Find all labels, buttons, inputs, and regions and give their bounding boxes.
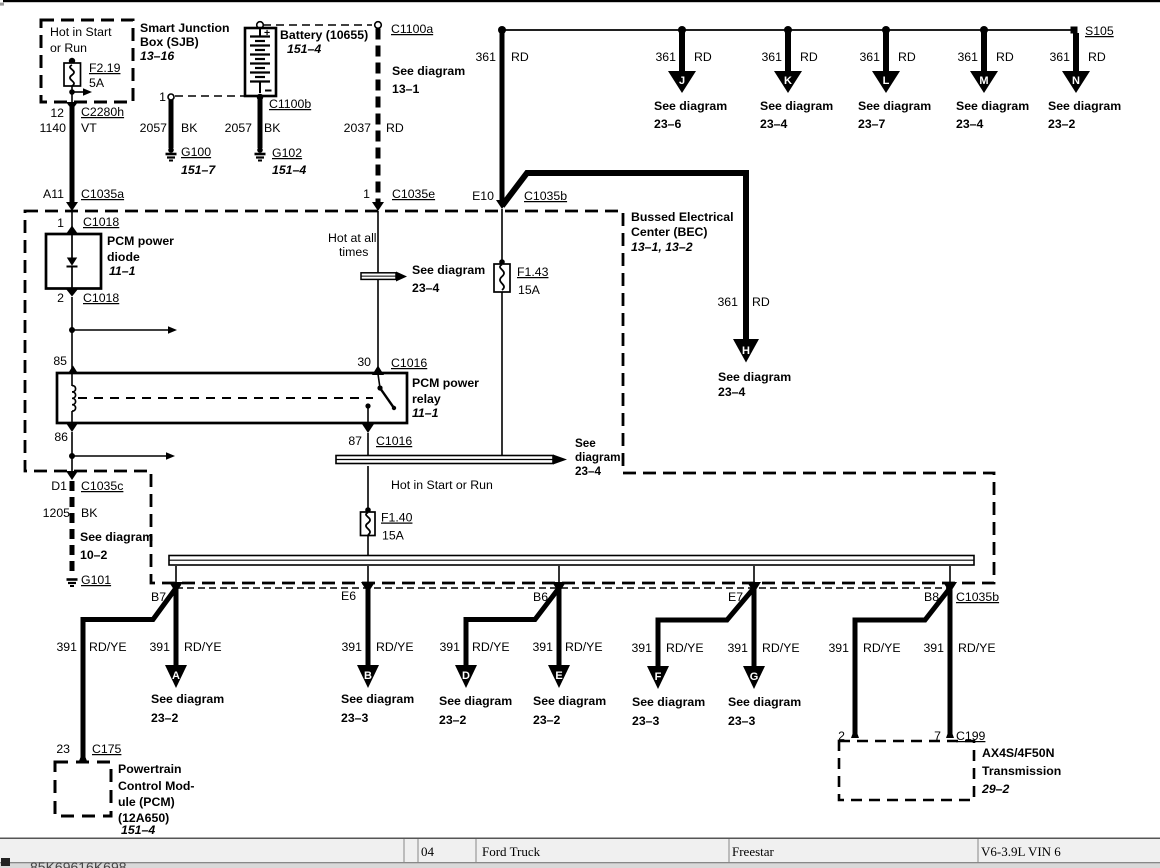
pin 86 [66, 423, 78, 432]
svg-text:See diagram: See diagram [341, 692, 414, 706]
pin 2 C1018 [66, 289, 78, 297]
PCM power diode box [46, 234, 101, 289]
svg-text:C1016: C1016 [376, 434, 412, 448]
svg-text:See: See [575, 437, 596, 450]
arrow M [956, 26, 1029, 131]
svg-text:361: 361 [761, 50, 782, 64]
svg-text:361: 361 [717, 295, 738, 309]
wire into diode [71, 211, 73, 236]
svg-text:23–7: 23–7 [858, 117, 886, 131]
svg-text:F1.43: F1.43 [517, 265, 549, 279]
wire 391 RD/YE B7 to arrow A [174, 586, 179, 668]
svg-text:RD: RD [752, 295, 770, 309]
svg-text:04: 04 [421, 844, 435, 859]
pin 30 C1016 wire [377, 211, 379, 367]
status bar [0, 838, 1160, 840]
relay coil [71, 373, 73, 386]
bus bar 3 [169, 556, 974, 566]
svg-text:C1035e: C1035e [392, 187, 435, 201]
arrow N [1048, 33, 1121, 131]
svg-text:M: M [979, 75, 988, 87]
wire down to relay [71, 297, 73, 373]
svg-text:12: 12 [50, 106, 64, 120]
svg-text:Transmission: Transmission [982, 764, 1061, 778]
svg-text:11–1: 11–1 [412, 406, 439, 420]
svg-text:23–4: 23–4 [760, 117, 788, 131]
arrow J [654, 26, 727, 131]
connector B6 [533, 566, 566, 604]
svg-text:times: times [339, 245, 368, 259]
svg-text:23–3: 23–3 [728, 714, 756, 728]
svg-text:C1016: C1016 [391, 356, 427, 370]
svg-text:391: 391 [439, 640, 460, 654]
arrow D [455, 665, 477, 688]
fuse F2.19 [69, 58, 75, 64]
connector D1 C1035c [66, 471, 78, 480]
svg-text:391: 391 [532, 640, 553, 654]
svg-text:diode: diode [107, 250, 140, 264]
svg-text:361: 361 [1049, 50, 1070, 64]
svg-text:diagram: diagram [575, 451, 620, 464]
ground G102 [257, 147, 263, 153]
svg-text:RD: RD [1088, 50, 1106, 64]
pin 87 C1016 [362, 424, 374, 433]
svg-text:PCM power: PCM power [412, 376, 479, 390]
svg-text:RD/YE: RD/YE [762, 641, 800, 655]
battery (10655) [257, 22, 264, 29]
wire 391 RD/YE E7 to arrow F [658, 588, 754, 669]
node with right arrow [69, 327, 75, 333]
wire 86 down [71, 432, 73, 471]
svg-text:23–4: 23–4 [412, 281, 440, 295]
svg-text:See diagram: See diagram [151, 692, 224, 706]
svg-text:2057: 2057 [140, 121, 168, 135]
fuse branch arrow [69, 89, 75, 95]
arrow G [743, 666, 765, 689]
svg-text:RD/YE: RD/YE [472, 640, 510, 654]
svg-text:H: H [742, 345, 750, 357]
fuse box Hot in Start or Run (dashed) [41, 20, 133, 102]
relay switch [378, 374, 380, 388]
svg-text:RD/YE: RD/YE [89, 640, 127, 654]
svg-text:C1035b: C1035b [956, 590, 999, 604]
svg-text:C1035c: C1035c [81, 479, 123, 493]
svg-text:86: 86 [54, 430, 68, 444]
svg-text:Battery (10655): Battery (10655) [280, 28, 368, 42]
svg-text:391: 391 [828, 641, 849, 655]
svg-text:See diagram: See diagram [439, 694, 512, 708]
svg-text:1: 1 [57, 216, 64, 230]
svg-text:G: G [750, 671, 759, 683]
ground G101 [67, 578, 78, 581]
wire (dashed link to battery) [175, 95, 256, 97]
arrow A [165, 665, 187, 688]
svg-text:23–2: 23–2 [1048, 117, 1076, 131]
PCM power relay box [57, 373, 407, 423]
svg-text:2057: 2057 [225, 121, 253, 135]
svg-text:1: 1 [159, 90, 166, 104]
svg-text:23: 23 [56, 742, 70, 756]
arrow K [760, 26, 833, 131]
svg-text:RD/YE: RD/YE [565, 640, 603, 654]
svg-text:85K69616K698: 85K69616K698 [30, 859, 127, 868]
svg-text:F1.40: F1.40 [381, 511, 413, 525]
svg-text:VT: VT [81, 121, 97, 135]
svg-text:Ford Truck: Ford Truck [482, 844, 541, 859]
svg-text:Hot at all: Hot at all [328, 231, 377, 245]
svg-text:RD/YE: RD/YE [863, 641, 901, 655]
dashed enclosure (SJB/BEC boundary polygon) [25, 211, 994, 583]
svg-text:13–16: 13–16 [140, 49, 174, 63]
svg-text:RD/YE: RD/YE [958, 641, 996, 655]
svg-text:Hot in Start: Hot in Start [50, 25, 112, 39]
svg-text:361: 361 [957, 50, 978, 64]
svg-text:V6-3.9L VIN 6: V6-3.9L VIN 6 [981, 844, 1061, 859]
svg-text:13–1: 13–1 [392, 82, 420, 96]
svg-text:Control Mod-: Control Mod- [118, 779, 195, 793]
svg-text:23–6: 23–6 [654, 117, 682, 131]
svg-text:See diagram: See diagram [1048, 99, 1121, 113]
wire 2037 RD (thick dashed) [376, 29, 381, 203]
svg-text:Bussed Electrical: Bussed Electrical [631, 210, 734, 224]
svg-text:F2.19: F2.19 [89, 61, 121, 75]
svg-text:391: 391 [341, 640, 362, 654]
fuse F1.43 [501, 209, 503, 264]
svg-text:RD: RD [511, 50, 529, 64]
svg-text:See diagram: See diagram [632, 695, 705, 709]
svg-text:Hot in Start or Run: Hot in Start or Run [391, 478, 493, 492]
svg-text:391: 391 [631, 641, 652, 655]
connector row dashed line [176, 587, 950, 589]
svg-text:RD/YE: RD/YE [376, 640, 414, 654]
arrow H [733, 339, 759, 363]
svg-text:15A: 15A [518, 283, 541, 297]
PCM box (dashed) [55, 762, 111, 816]
svg-text:5A: 5A [89, 76, 105, 90]
svg-text:C1100b: C1100b [269, 97, 311, 111]
svg-text:See diagram: See diagram [412, 263, 485, 277]
arrow B [357, 665, 379, 688]
svg-text:85: 85 [53, 354, 67, 368]
svg-text:ule (PCM): ule (PCM) [118, 795, 175, 809]
svg-text:151–4: 151–4 [287, 42, 321, 56]
svg-text:RD: RD [694, 50, 712, 64]
svg-text:See diagram: See diagram [392, 64, 465, 78]
svg-text:391: 391 [56, 640, 77, 654]
wire 2057 BK (G102) [257, 94, 264, 101]
svg-text:30: 30 [357, 355, 371, 369]
svg-text:23–4: 23–4 [575, 465, 602, 478]
svg-text:C1035a: C1035a [81, 187, 124, 201]
top frame line [3, 0, 1160, 2]
svg-text:361: 361 [859, 50, 880, 64]
connector E7 [728, 566, 761, 604]
svg-text:N: N [1072, 75, 1080, 87]
svg-text:87: 87 [348, 434, 362, 448]
svg-text:PCM power: PCM power [107, 234, 174, 248]
svg-text:or Run: or Run [50, 41, 87, 55]
svg-text:391: 391 [149, 640, 170, 654]
svg-text:23–2: 23–2 [533, 713, 561, 727]
bus arrow 1 [361, 273, 396, 280]
wire 1140 VT (thick) [70, 102, 75, 204]
svg-text:361: 361 [655, 50, 676, 64]
svg-text:RD: RD [386, 121, 404, 135]
wire 391 RD/YE E7 to arrow G [752, 586, 757, 669]
ground G100 [168, 147, 174, 153]
svg-text:See diagram: See diagram [760, 99, 833, 113]
svg-text:K: K [784, 75, 792, 87]
svg-text:23–2: 23–2 [439, 713, 467, 727]
svg-text:C2280h: C2280h [81, 105, 124, 119]
svg-text:See diagram: See diagram [533, 694, 606, 708]
svg-text:RD: RD [898, 50, 916, 64]
svg-text:361: 361 [475, 50, 496, 64]
svg-text:Freestar: Freestar [732, 844, 775, 859]
svg-text:A: A [172, 670, 180, 682]
wire 87 to bus 2 [367, 433, 369, 456]
svg-text:Powertrain: Powertrain [118, 762, 182, 776]
svg-text:See diagram: See diagram [718, 370, 791, 384]
wire 391 RD/YE B6 to arrow D [466, 588, 559, 668]
node C1100a [263, 24, 372, 26]
svg-text:C1035b: C1035b [524, 189, 567, 203]
svg-text:See diagram: See diagram [956, 99, 1029, 113]
wire 391 RD/YE E6 to arrow B [366, 586, 371, 668]
svg-text:L: L [883, 75, 890, 87]
connector B7 [151, 566, 183, 604]
wire 391 RD/YE B8 pin 2 [855, 588, 950, 738]
svg-text:151–4: 151–4 [272, 163, 306, 177]
svg-text:23–2: 23–2 [151, 711, 179, 725]
svg-text:A11: A11 [43, 187, 64, 201]
svg-text:RD/YE: RD/YE [184, 640, 222, 654]
wire 391 RD/YE B8 pin 7 [948, 586, 953, 738]
arrow E [548, 665, 570, 688]
svg-text:2037: 2037 [344, 121, 372, 135]
svg-text:RD: RD [996, 50, 1014, 64]
connector E6 [341, 566, 375, 603]
svg-text:RD/YE: RD/YE [666, 641, 704, 655]
relay internal dashed link [78, 397, 373, 399]
wire 391 RD/YE B7 to PCM [83, 588, 176, 761]
svg-text:11–1: 11–1 [109, 264, 136, 278]
svg-text:391: 391 [727, 641, 748, 655]
wire 391 RD/YE B6 to arrow E [557, 586, 562, 668]
svg-text:F: F [655, 671, 662, 683]
fuse F1.40 [367, 466, 369, 512]
svg-text:23–4: 23–4 [956, 117, 984, 131]
svg-text:J: J [679, 75, 685, 87]
svg-text:BK: BK [181, 121, 198, 135]
svg-text:1140: 1140 [40, 121, 67, 135]
svg-text:2: 2 [57, 291, 64, 305]
svg-text:See diagram: See diagram [858, 99, 931, 113]
wire 2057 BK (G100) [169, 100, 174, 148]
wire 1205 BK (thick dashed) [70, 481, 75, 575]
svg-text:E6: E6 [341, 589, 356, 603]
svg-text:G101: G101 [81, 573, 111, 587]
top power rail wire [502, 29, 1074, 31]
svg-text:23–4: 23–4 [718, 385, 746, 399]
wire 361 RD (to E10, thick) [498, 26, 506, 34]
bus arrow 2 [336, 456, 553, 464]
svg-text:+: + [264, 27, 270, 39]
svg-text:relay: relay [412, 392, 441, 406]
svg-text:RD: RD [800, 50, 818, 64]
node with right arrow [69, 453, 75, 459]
svg-text:E10: E10 [472, 189, 494, 203]
svg-text:C175: C175 [92, 742, 122, 756]
svg-text:E: E [555, 670, 562, 682]
svg-text:Box (SJB): Box (SJB) [140, 35, 199, 49]
svg-text:C1018: C1018 [83, 291, 119, 305]
svg-text:BK: BK [264, 121, 281, 135]
svg-text:B: B [364, 670, 372, 682]
arrow F [647, 666, 669, 689]
svg-text:D1: D1 [51, 479, 67, 493]
svg-text:151–4: 151–4 [121, 823, 155, 837]
svg-text:G102: G102 [272, 146, 302, 160]
svg-text:23–3: 23–3 [632, 714, 660, 728]
svg-text:13–1, 13–2: 13–1, 13–2 [631, 240, 693, 254]
svg-text:C1018: C1018 [83, 215, 119, 229]
connector B8 C1035b [924, 566, 999, 604]
diode symbol [71, 234, 73, 258]
svg-text:S105: S105 [1085, 24, 1114, 38]
wire 361 RD to arrow H (thick bent) [502, 173, 746, 339]
splice S105 [1071, 27, 1078, 34]
connector A11 C1035a [66, 202, 78, 211]
svg-text:See diagram: See diagram [654, 99, 727, 113]
svg-text:D: D [462, 670, 470, 682]
svg-text:29–2: 29–2 [981, 782, 1010, 796]
svg-text:BK: BK [81, 506, 98, 520]
transmission box (dashed) [839, 741, 974, 800]
svg-text:See diagram: See diagram [80, 530, 153, 544]
svg-text:1: 1 [363, 187, 370, 201]
svg-text:1205: 1205 [43, 506, 71, 520]
svg-text:Smart Junction: Smart Junction [140, 21, 230, 35]
svg-text:391: 391 [923, 641, 944, 655]
svg-text:G100: G100 [181, 145, 211, 159]
svg-text:15A: 15A [382, 529, 405, 543]
arrow L [858, 26, 931, 131]
svg-text:Center (BEC): Center (BEC) [631, 225, 708, 239]
svg-text:See diagram: See diagram [728, 695, 801, 709]
svg-text:10–2: 10–2 [80, 548, 108, 562]
svg-text:151–7: 151–7 [181, 163, 216, 177]
svg-text:AX4S/4F50N: AX4S/4F50N [982, 746, 1055, 760]
svg-text:23–3: 23–3 [341, 711, 369, 725]
svg-text:C1100a: C1100a [391, 22, 433, 36]
